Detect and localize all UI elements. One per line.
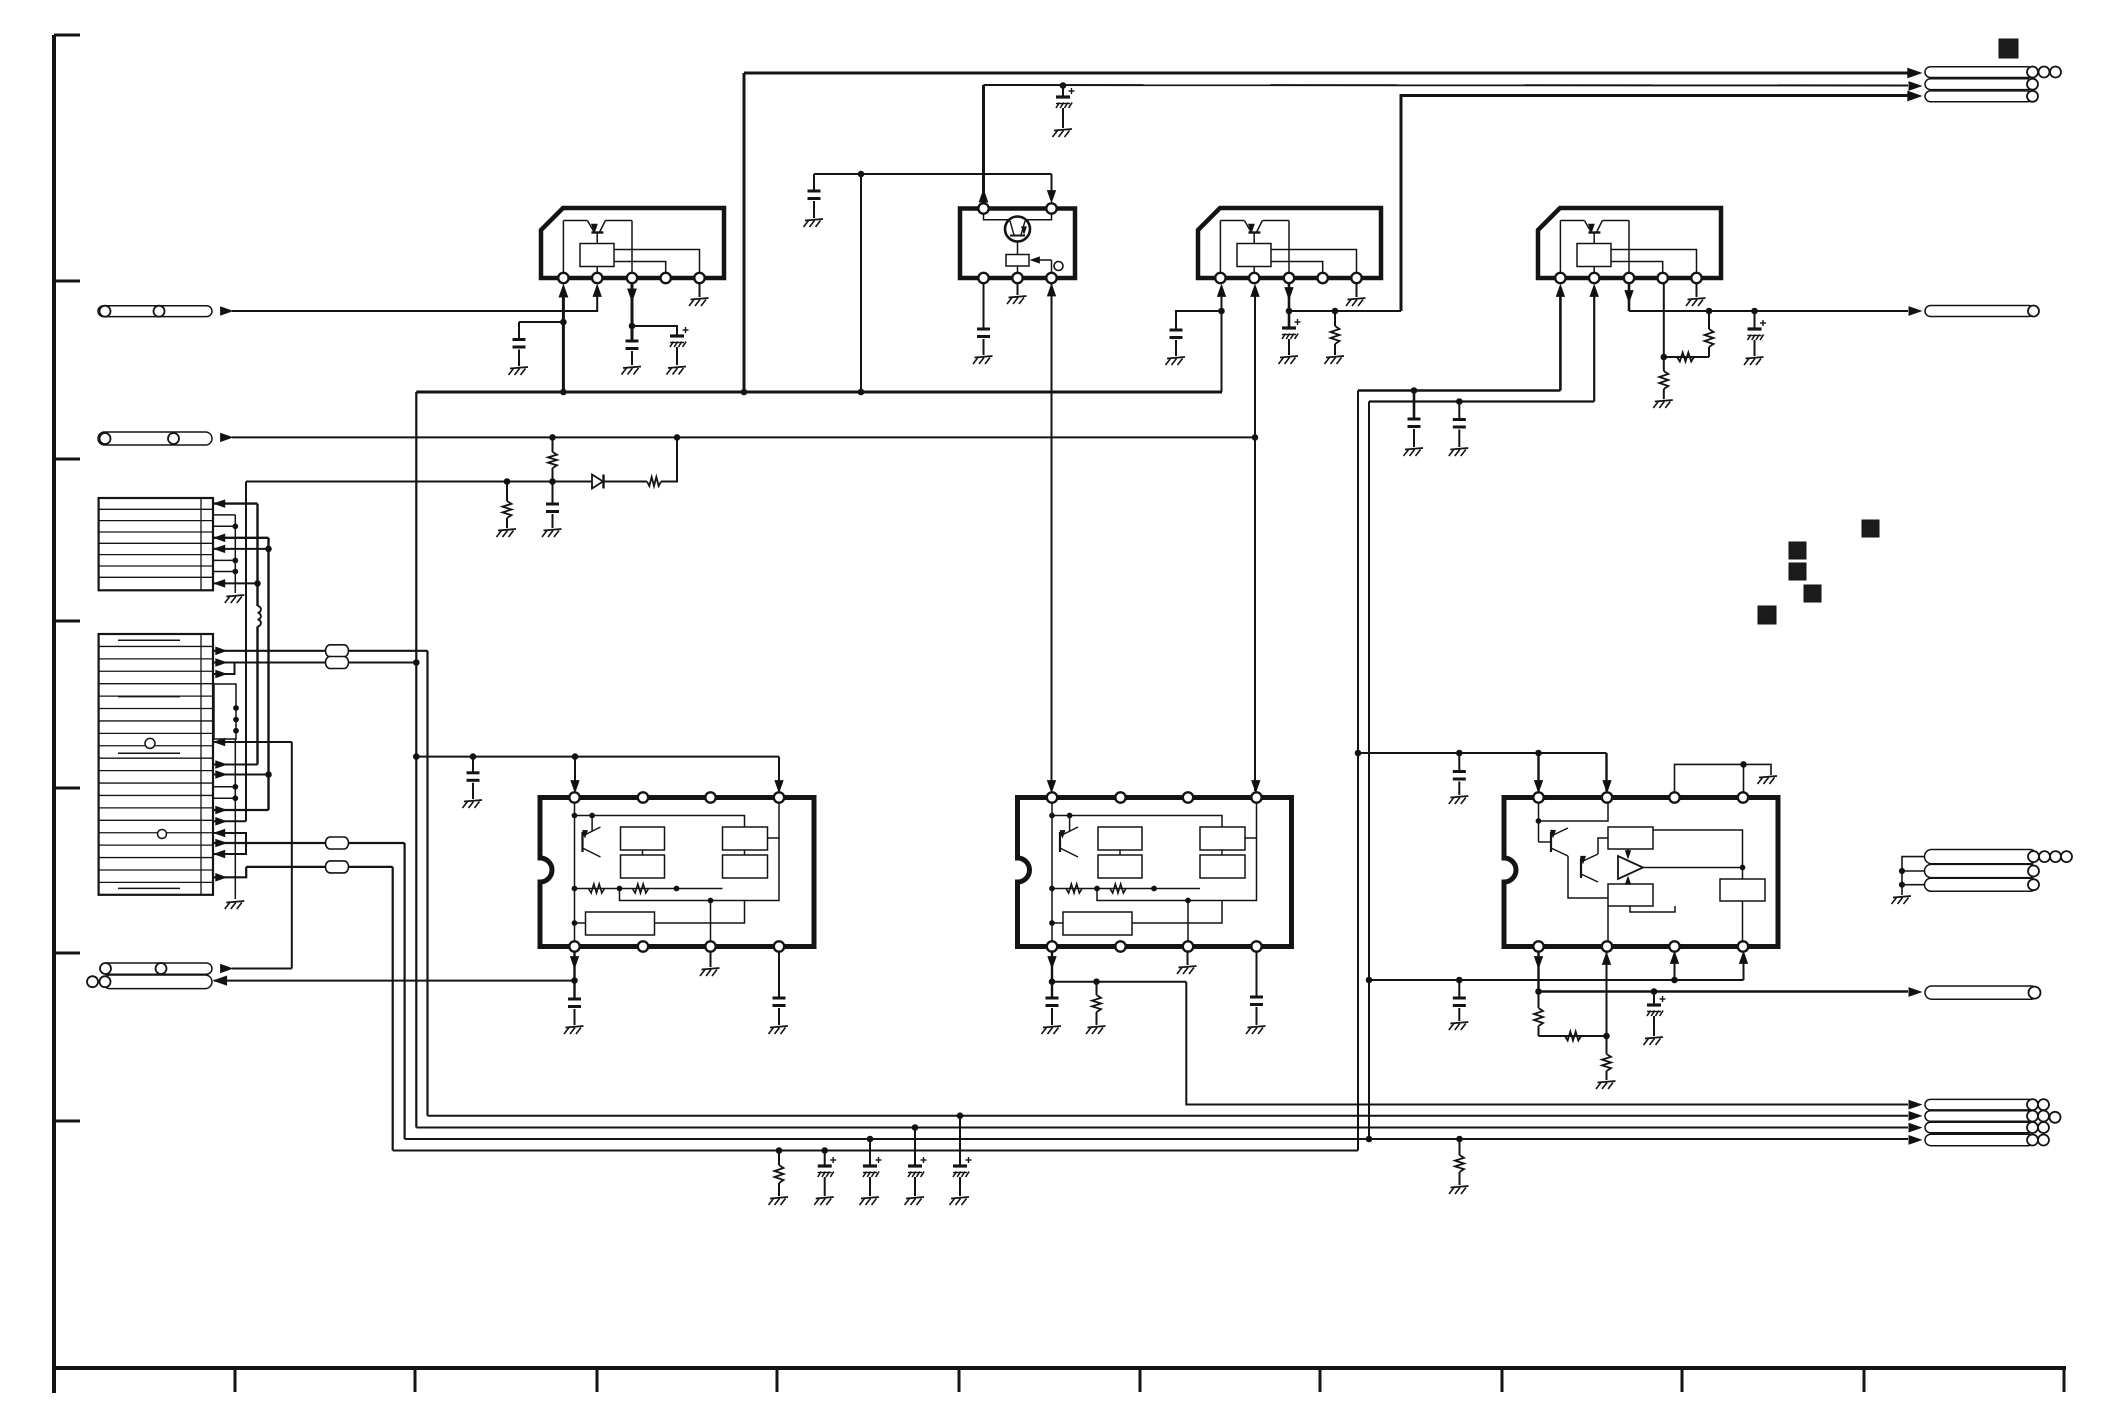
IC U7 pin B2 <box>1602 941 1612 951</box>
IC U4 internal wire out2 <box>1611 262 1663 274</box>
IC U7 internal opamp <box>1618 849 1643 884</box>
arrow out of IC4 pin3 <box>1625 291 1633 302</box>
IC U3 pin 4 <box>1318 273 1328 283</box>
arrow up at IC2 pinA <box>979 190 987 202</box>
IC U5 internal resistor Ra <box>589 884 605 893</box>
wire CN2 row4 jog <box>214 663 235 678</box>
wire lineB <box>1369 400 1594 402</box>
IC U7 pin T2 <box>1602 792 1612 802</box>
ground below C4 <box>804 219 824 227</box>
border tick left 4 <box>54 620 80 623</box>
wire W9 riser <box>245 482 247 822</box>
IC U6 pin T1 <box>1047 792 1057 802</box>
junction IC1 pin1/cap line <box>561 319 567 325</box>
connector CN-TR pill3 circle <box>2027 91 2038 102</box>
resistor R12 <box>775 1151 784 1197</box>
wire IC6 B1 drop <box>1051 951 1053 998</box>
wire net311a <box>1289 310 1401 312</box>
capacitor C14 <box>773 998 786 1025</box>
junction CN1 row7 <box>233 569 238 574</box>
wire net174 to IC2 pinB <box>1051 174 1053 199</box>
IC U6 internal res rail <box>1052 888 1200 890</box>
arrow into CN top pin1 <box>1908 68 1921 77</box>
wire bus B5 (y1150) <box>393 1150 1358 1152</box>
capacitor C4 on net174 <box>808 174 821 218</box>
arrow into CN top pin2 <box>1909 82 1921 90</box>
IC U6 pin B3 <box>1183 941 1193 951</box>
junction IC7B1 out <box>1536 989 1542 995</box>
resistor R7 (horizontal) <box>647 477 661 486</box>
IC U7 internal top link <box>1536 802 1608 823</box>
arrow into IC7 pinB4 <box>1740 952 1748 963</box>
IC U6 internal block4 <box>1200 855 1245 878</box>
junction busB5/R12 <box>776 1148 782 1154</box>
capacitor C5 below IC2 pinC <box>977 329 990 355</box>
IC U2 internal pinD stub <box>1017 266 1019 272</box>
wire vertical VCC1 drop <box>743 73 746 392</box>
wire bus B3 (y1127) <box>416 1127 1908 1129</box>
IC U7 pin T1 <box>1533 792 1543 802</box>
IC U1 internal block <box>580 244 614 267</box>
junction CN1 row5/net268 <box>266 546 272 552</box>
ground at IC4 pin5 <box>1686 298 1706 306</box>
capacitor C6 <box>1170 330 1183 356</box>
wire IC7 B2 drop <box>1606 951 1608 1054</box>
junction IC5B1/L1net <box>572 978 578 984</box>
IC U3 internal wire pin1 riser <box>1219 221 1221 274</box>
border tick bottom 3 <box>596 1368 599 1392</box>
connector P2 circles <box>100 433 180 444</box>
wire CN1 row8 <box>214 580 258 587</box>
wire IC1 pin3 drop <box>631 283 634 341</box>
wire CN1 row4 <box>214 534 269 541</box>
IC U5 internal b3 riser <box>708 898 713 941</box>
marker square M6 <box>1758 606 1776 624</box>
wire W9 horizontal <box>246 481 593 483</box>
arrow into CN-BR pill2 <box>1909 1112 1921 1120</box>
ground below C3 <box>667 367 687 375</box>
ferrite bead FB2 <box>326 657 349 669</box>
IC U2 pin E <box>1046 273 1056 283</box>
IC U6 internal transistor Q <box>1060 816 1078 858</box>
IC U7 internal transistor Q2 <box>1581 854 1598 882</box>
resistor R4 <box>1659 357 1668 399</box>
IC U7 outline <box>1504 798 1778 947</box>
IC U6 internal block3 <box>1200 827 1245 850</box>
wire IC4 pin2 riser <box>1593 290 1595 402</box>
IC U4 internal wire pin3 riser <box>1628 221 1630 274</box>
wire bus392 left drop <box>415 392 417 1128</box>
IC U2 pin A <box>978 203 988 213</box>
junction CN1 row8/L-net <box>255 581 261 587</box>
arrow out of IC3 pin3 <box>1285 288 1293 299</box>
arrow out of P1 <box>221 307 232 315</box>
arrow out of IC5 B1 <box>571 957 579 968</box>
border tick left 3 <box>54 458 80 461</box>
junction R6/P2bus <box>550 435 556 441</box>
IC U1 pin 3 <box>627 273 637 283</box>
IC U6 internal b3 riser <box>1186 898 1191 941</box>
IC U1 internal wire pin2 stub <box>596 267 598 274</box>
IC U1 pin 2 <box>592 273 602 283</box>
IC U1 internal wire pin1 riser <box>562 221 564 274</box>
wire net980 (lineB to IC7 B3/B4) <box>1369 979 1744 981</box>
junction net980/C19 <box>1457 977 1463 983</box>
wire CN2 row14 stub <box>214 797 235 799</box>
border tick left 1 <box>54 34 80 37</box>
IC U5 internal low rail <box>620 838 780 901</box>
IC U4 pin 2 <box>1589 273 1599 283</box>
wire out net to CN-R2 <box>1539 990 1909 992</box>
wire CN2 row13 stub <box>214 786 235 788</box>
arrow up below IC3 pin2 <box>1251 285 1259 296</box>
junction F2/bus392drop <box>414 660 420 666</box>
IC U2 pin B <box>1046 203 1056 213</box>
ground below C23 <box>950 1197 970 1205</box>
wire CN2 row15 <box>214 806 269 813</box>
wire riser 861 <box>860 174 862 392</box>
IC U5 internal block2 <box>621 855 665 878</box>
wire CN1 row3 stub <box>214 525 235 527</box>
capacitor C18 (electrolytic) <box>1647 992 1666 1037</box>
wire CN2 row17 jog <box>214 829 246 857</box>
wire CN1 row6 stub <box>214 559 235 561</box>
marker square M3 <box>1789 542 1806 559</box>
wire IC4 pin5 ground stub <box>1696 283 1698 297</box>
connector CN2 row lines <box>99 646 213 882</box>
wire branch to C6 <box>1176 311 1222 330</box>
wire IC1 pin1 supply riser <box>562 290 565 392</box>
connector CN-TR pill1 <box>1925 67 2033 78</box>
resistor R3 (horizontal) <box>1677 353 1694 362</box>
wire net291 drop <box>291 742 293 969</box>
junction IC3 pin1 y311 <box>1219 308 1225 314</box>
arrow into IC4 pin1 <box>1556 285 1564 296</box>
resistor R13 <box>1455 1139 1464 1185</box>
IC U6 internal block5 out <box>1132 901 1222 924</box>
junction IC6B1/L2net <box>1049 979 1055 985</box>
IC U5 pin T2 <box>638 792 648 802</box>
resistor R6 (to P2 bus) <box>548 437 557 481</box>
wire to IC7 pinT1 <box>1537 753 1539 791</box>
border tick left 7 <box>54 1120 80 1123</box>
IC U6 internal riser <box>1051 802 1053 941</box>
IC U2 internal circle <box>1054 262 1063 271</box>
wire to IC7 pinB4 <box>1743 953 1745 980</box>
connector CN-TR pill3 <box>1925 91 2033 102</box>
wire CN2 row20 jog <box>214 867 246 881</box>
junction busB4/R13 <box>1457 1136 1463 1142</box>
junction W9/R6 <box>550 479 556 485</box>
IC U3 pin 2 <box>1249 273 1259 283</box>
IC U6 internal top rail <box>1052 816 1222 828</box>
wire CN2 row16 <box>214 818 246 825</box>
IC U2 outline <box>960 209 1075 279</box>
marker square M1 <box>1999 39 2018 58</box>
arrow into IC7 pinT2 <box>1603 781 1611 792</box>
IC U1 internal transistor Q <box>563 221 632 244</box>
connector P3 (left output) <box>101 963 212 974</box>
ground CN1 bar <box>225 595 245 603</box>
connector CN-R3 pill3 circle <box>2028 879 2039 890</box>
capacitor C16 <box>1250 997 1263 1025</box>
marker square M5 <box>1804 585 1821 602</box>
IC U7 pin B4 <box>1738 941 1748 951</box>
border tick bottom 5 <box>958 1368 961 1392</box>
border tick bottom 7 <box>1319 1368 1322 1392</box>
arrow into CN-R2 <box>1909 988 1921 996</box>
IC U6 internal low rail <box>1097 838 1257 901</box>
junction net311b/C8 <box>1752 308 1758 314</box>
IC U5 internal block1 <box>621 827 665 850</box>
border tick bottom 10 <box>1863 1368 1866 1392</box>
IC U6 pin B2 <box>1115 941 1125 951</box>
wire CN2 gnd bar <box>234 739 236 899</box>
wire IC2 pinE long drop to IC6 <box>1051 283 1053 791</box>
wire IC6 B3 stub <box>1187 951 1189 965</box>
ground below R5 <box>497 529 517 537</box>
connector CN-TR pill2 <box>1925 79 2033 90</box>
junction net757/C12 <box>470 754 476 760</box>
IC U5 pin B3 <box>705 941 715 951</box>
junction net980/lineB <box>1366 977 1372 983</box>
ground CN-R3 <box>1892 896 1912 904</box>
wire net3 to CN pin3 <box>1401 96 1908 312</box>
ground below C10 <box>1449 448 1469 456</box>
wire F4 drop x392 <box>392 867 394 1151</box>
wire top bus VCC1 <box>744 72 1908 75</box>
connector CN2 key mark 3 <box>118 752 180 754</box>
junction W9/R5 <box>504 479 510 485</box>
arrow out of IC6 B1 <box>1048 957 1056 968</box>
arrow up below IC2 pinE <box>1048 285 1056 296</box>
connector CN1 body <box>99 498 213 590</box>
junction IC3 pin3 y311 <box>1286 308 1292 314</box>
IC U5 internal block link12 <box>642 850 644 855</box>
connector P1 circles <box>100 306 165 317</box>
capacitor C22 (electrolytic) <box>908 1128 927 1197</box>
wire P2 bus <box>232 436 1255 438</box>
ground CN2 bar <box>225 901 245 909</box>
IC U7 internal block bottom <box>1608 884 1653 906</box>
connector CN-R3 pill1 circles <box>2028 851 2072 862</box>
connector CN-BR pill1 <box>1925 1099 2034 1110</box>
IC U6 internal resistor Rb <box>1110 884 1126 893</box>
wire L2 drop to bus1 <box>1186 982 1908 1105</box>
ground below R13 <box>1449 1186 1469 1194</box>
capacitor C21 (electrolytic) <box>863 1139 882 1196</box>
capacitor C1 <box>513 322 526 366</box>
ground below R1 <box>1325 356 1345 364</box>
border tick left 6 <box>54 952 80 955</box>
junction outnet/C18 <box>1651 989 1657 995</box>
ground at IC1 pin5 <box>689 298 709 306</box>
arrow into IC4 pin2 <box>1590 285 1598 296</box>
ground below R11 <box>1596 1081 1616 1089</box>
junction busB5/C20 <box>822 1148 828 1154</box>
connector CN-BR pill4 circles <box>2027 1135 2049 1146</box>
IC U7 internal wires <box>1568 830 1745 912</box>
connector P2 (left input 2) <box>98 432 212 445</box>
capacitor C10 <box>1453 402 1466 448</box>
connector CN-BR extra circle <box>2050 1112 2061 1123</box>
IC U5 internal riser <box>574 802 576 941</box>
ground below C7 <box>1279 356 1299 364</box>
arrow into CN-BR pill4 <box>1909 1136 1921 1144</box>
IC U7 pin B3 <box>1669 941 1679 951</box>
junction CN-R3 gnd <box>1899 868 1904 887</box>
IC U5 internal dots <box>572 813 594 925</box>
arrow into CN-R1 <box>1909 307 1921 315</box>
wire net753 <box>1358 752 1607 754</box>
junction net757/bus392drop <box>414 754 420 760</box>
capacitor C19 <box>1453 980 1466 1021</box>
wire F1 drop x427 <box>426 651 428 1116</box>
junction CN2 r14 <box>233 796 238 801</box>
wire W9 right link <box>661 437 677 481</box>
wire IC7 B1 drop <box>1537 951 1539 992</box>
connector CN2 shield bracket <box>214 684 236 739</box>
IC U5 pin T1 <box>569 792 579 802</box>
arrow into IC6 pinT1 <box>1048 781 1056 792</box>
wire CN1 gnd bar <box>234 515 236 593</box>
IC U1 pin 5 <box>694 273 704 283</box>
IC U5 pin B4 <box>774 941 784 951</box>
capacitor C2 below IC1 pin3 <box>626 341 639 365</box>
connector CN-R2 circle <box>2029 987 2041 999</box>
junction IC1 pin1/bus392 <box>561 389 567 395</box>
connector CN-TR pill1 circles <box>2027 67 2061 78</box>
junction lineA/C9 <box>1411 388 1417 394</box>
IC U2 pin D <box>1012 273 1022 283</box>
junction net2 ecap <box>1060 83 1066 89</box>
wire to IC5 pinT1 <box>574 757 576 791</box>
ground below C20 <box>814 1197 834 1205</box>
connector CN-R3 pill3 <box>1925 878 2038 891</box>
IC U4 pin 4 <box>1658 273 1668 283</box>
IC U5 internal resistor Rb <box>633 884 649 893</box>
IC U6 internal block2 <box>1098 855 1142 878</box>
wire CN2 row3 (ferrite net F2) <box>214 659 416 666</box>
junction CN1 row6 <box>233 558 238 563</box>
ferrite bead FB1 <box>326 645 349 657</box>
junction net753/lineAdrop <box>1355 750 1361 756</box>
wire to IC7 pinB3 <box>1674 953 1676 980</box>
wire IC3 pin2 riser-drop <box>1254 290 1256 791</box>
IC U4 outline <box>1538 208 1721 278</box>
junction net753/U7T1 <box>1536 750 1542 756</box>
junction net753/C17 <box>1457 750 1463 756</box>
junction R10/IC7B2 <box>1604 1033 1610 1039</box>
border tick bottom 2 <box>414 1368 417 1392</box>
ground below C15 <box>1042 1026 1062 1034</box>
wire lineA drop x1358 <box>1357 391 1359 1151</box>
IC U6 internal block link12 <box>1119 850 1121 855</box>
wire IC2 pinC drop <box>983 283 985 329</box>
ground below C8 <box>1744 357 1764 365</box>
junction CN1 row3 <box>233 524 238 529</box>
IC U5 internal block4 <box>723 855 768 878</box>
arrow into CN-BR pill3 <box>1909 1123 1921 1131</box>
IC U4 internal transistor Q <box>1560 221 1629 244</box>
connector CN2 circle 2 <box>158 830 167 839</box>
connector CN-R1 pill <box>1925 306 2034 317</box>
IC U7 internal block top <box>1608 827 1653 849</box>
junction net311a/R1 <box>1332 308 1338 314</box>
IC U1 internal wire pin3 riser <box>631 221 633 274</box>
junction CN2 r13 <box>233 784 238 789</box>
ground below C1 <box>509 367 529 375</box>
arrow into P4 <box>214 976 227 985</box>
ground below C18 <box>1644 1037 1664 1045</box>
wire net311b to CN-R1 <box>1629 310 1908 312</box>
resistor R5 <box>503 482 512 529</box>
wire CN2 row2 (ferrite net F1) <box>214 647 428 654</box>
wire IC5 B1 drop <box>573 951 575 999</box>
arrow into IC1 pin2 <box>593 285 601 296</box>
border tick bottom 6 <box>1139 1368 1142 1392</box>
wire IC5 B4 drop <box>778 951 780 998</box>
IC U5 pin B2 <box>638 941 648 951</box>
IC U7 pin T4 <box>1738 792 1748 802</box>
IC U3 internal wire pin2 stub <box>1253 267 1255 274</box>
IC U6 pin T4 <box>1251 792 1261 802</box>
IC U6 internal block5 <box>1063 912 1132 935</box>
IC U3 internal wire out2 <box>1271 262 1323 274</box>
IC U3 internal block <box>1237 244 1271 267</box>
capacitor C8 (electrolytic) <box>1748 311 1767 356</box>
border frame bottom rule <box>54 1366 2066 1370</box>
border tick bottom 8 <box>1501 1368 1504 1392</box>
arrow into IC2 pinB <box>1048 191 1056 202</box>
ground below C21 <box>860 1197 880 1205</box>
arrow into CN-BR pill1 <box>1909 1100 1921 1108</box>
wire P3 to CN2 row10 net <box>232 968 292 970</box>
arrow out of P2 <box>221 433 232 441</box>
ground below R8 <box>1086 1026 1106 1034</box>
resistor R2 <box>1705 311 1714 357</box>
connector CN2 key mark 2 <box>118 696 180 698</box>
junction net174/riser861 <box>858 171 864 177</box>
wire IC7 T3 riser <box>1675 764 1772 792</box>
junction busB4/lineBdrop <box>1366 1136 1372 1142</box>
marker square M2 <box>1862 520 1879 537</box>
capacitor C20 (electrolytic) <box>818 1151 837 1197</box>
ground at IC5 B3 <box>700 968 720 976</box>
wire IC7 T4 riser <box>1743 764 1745 792</box>
connector CN2 key mark 4 <box>118 887 180 889</box>
IC U1 internal wire out1 <box>614 250 700 274</box>
border tick left 5 <box>54 787 80 790</box>
connector CN-R3 pill2 circle <box>2028 866 2039 877</box>
border tick bottom 9 <box>1681 1368 1684 1392</box>
wire CN1 row7 stub <box>214 571 235 573</box>
wire IC2 pinA riser <box>982 85 985 203</box>
ground below C17 <box>1449 796 1469 804</box>
IC U5 pin B1 <box>569 941 579 951</box>
wire net357 <box>1664 356 1709 358</box>
border tick bottom 1 <box>234 1368 237 1392</box>
junction busB3/C22 <box>912 1125 918 1131</box>
IC U6 internal t4 riser <box>1256 802 1258 838</box>
ground below C16 <box>1246 1026 1266 1034</box>
IC U5 internal block5 <box>586 912 655 935</box>
ground below C22 <box>905 1197 925 1205</box>
capacitor C3 (electrolytic) <box>670 327 689 365</box>
IC U6 pin B1 <box>1047 941 1057 951</box>
connector CN1 pin column <box>200 498 202 590</box>
wire row20 (ferrite net F4) <box>246 866 393 868</box>
